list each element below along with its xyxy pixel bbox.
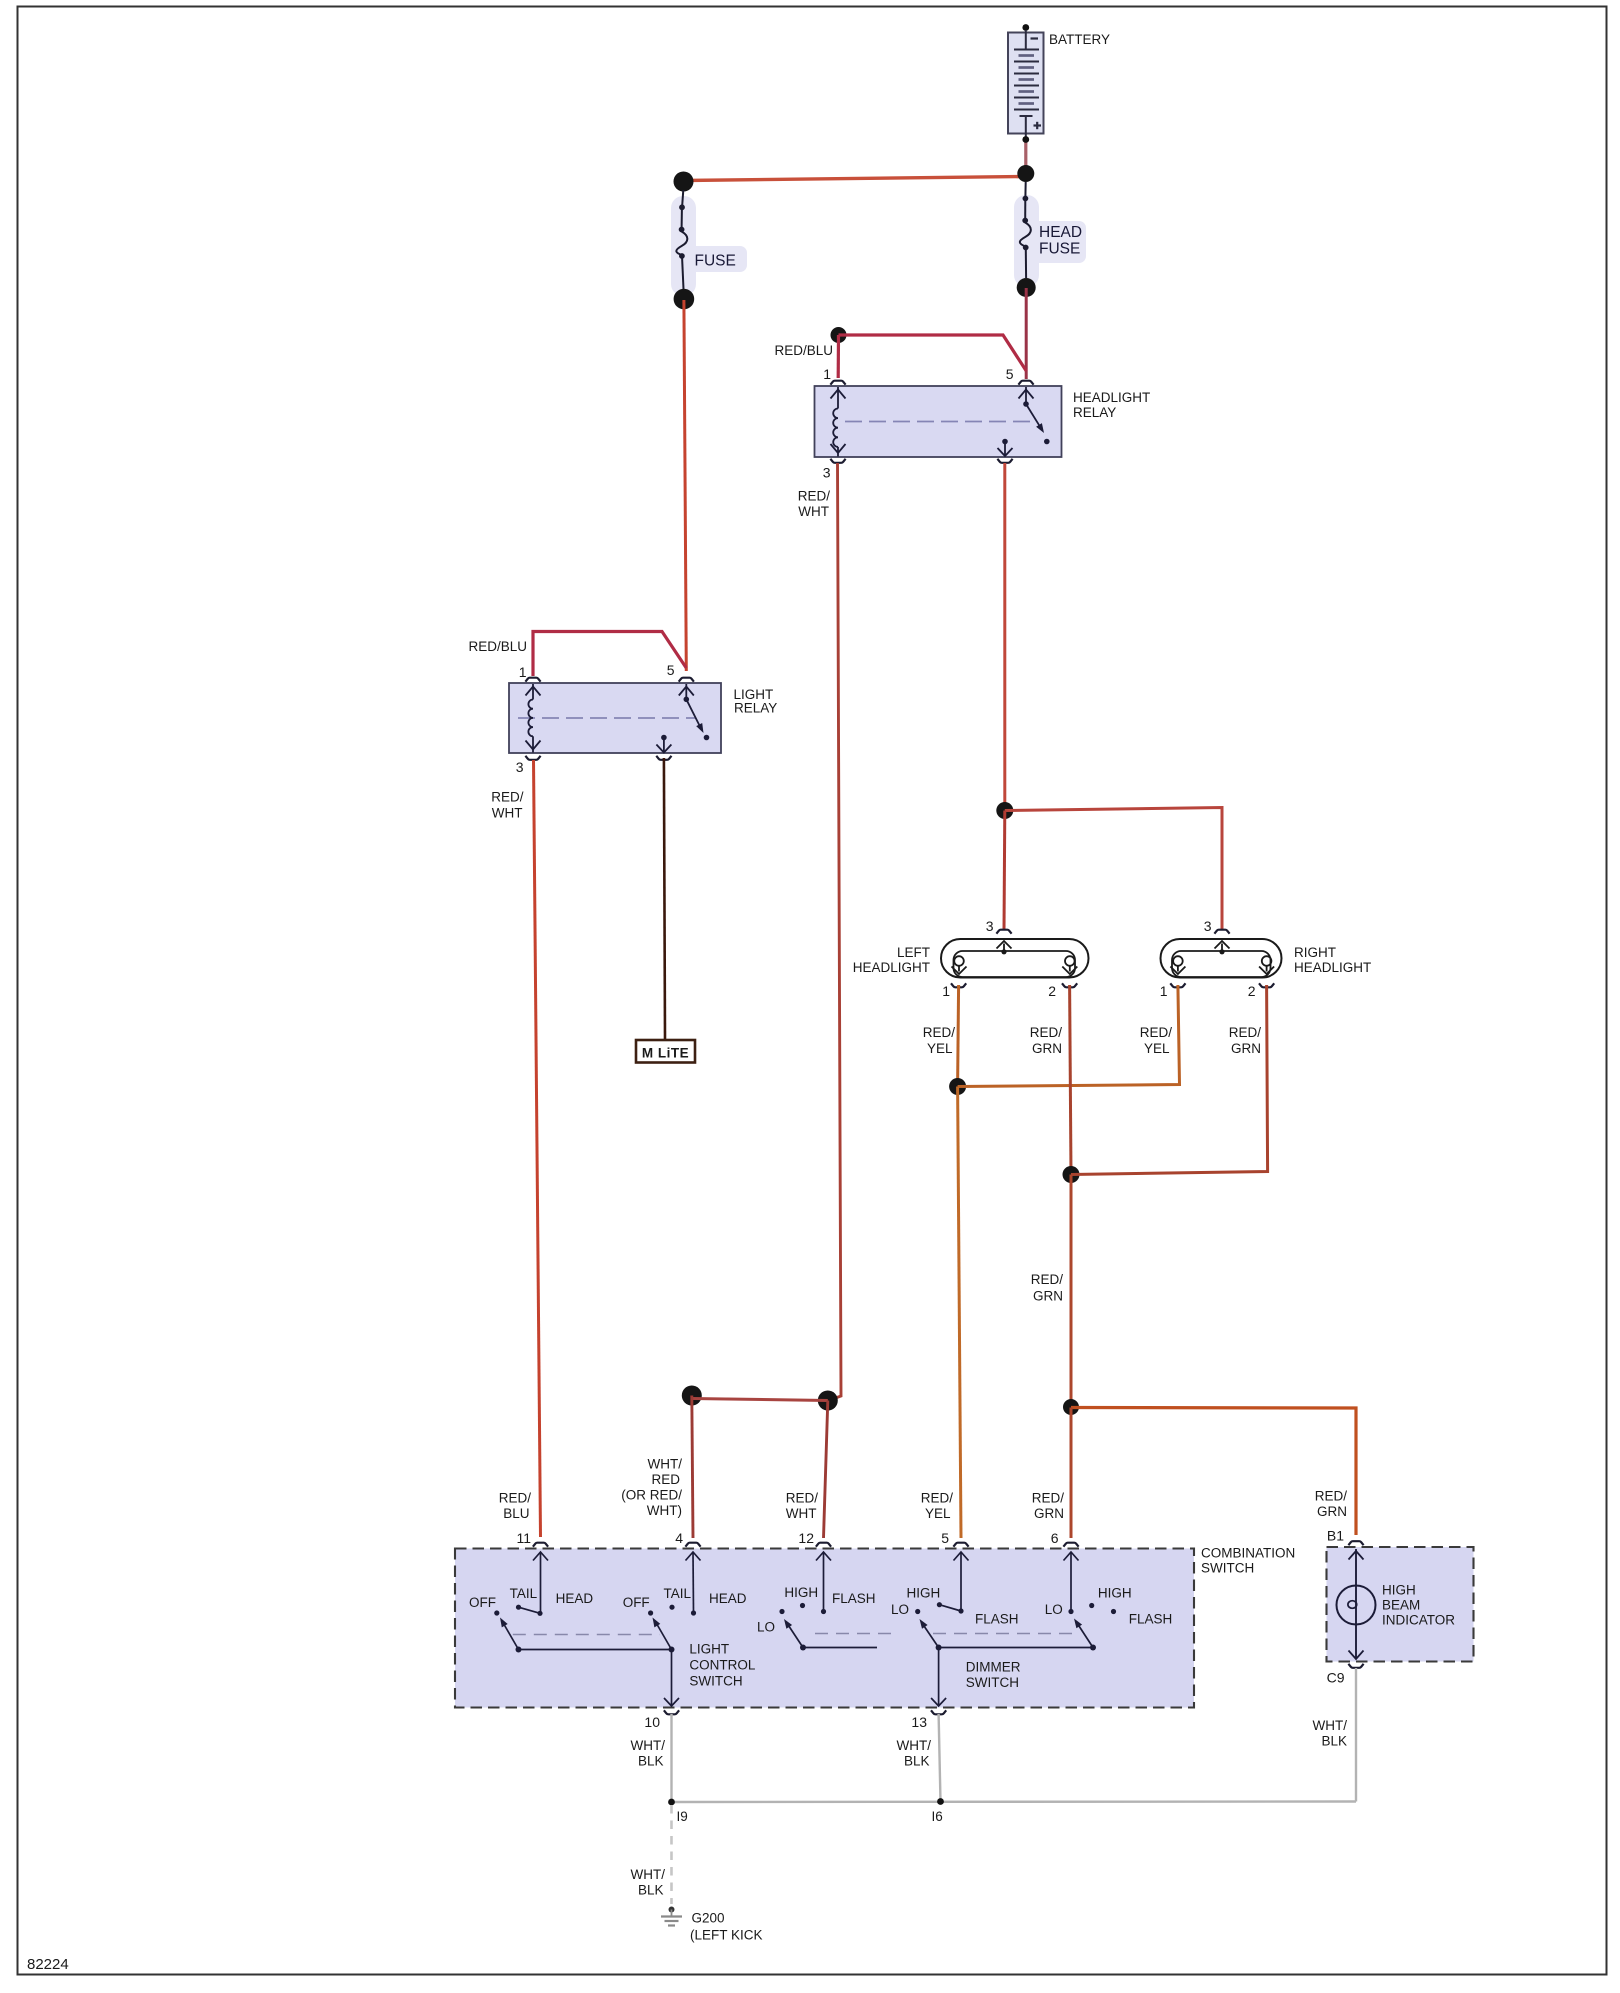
wire: headlight relay pin 3 down to pin4/pin12 junction xyxy=(830,463,841,1400)
relay K1 LIGHT RELAY xyxy=(509,662,777,775)
svg-text:WHT: WHT xyxy=(786,1506,817,1521)
coil (pin1-pin3) xyxy=(837,387,839,409)
svg-text:SWITCH: SWITCH xyxy=(689,1674,742,1689)
wire: fuse to light relay pin 5 xyxy=(684,300,686,671)
svg-text:B1: B1 xyxy=(1327,1528,1344,1544)
node: high-beam junction xyxy=(1063,1166,1080,1183)
wire: junction to high beam indicator B1 xyxy=(1071,1408,1356,1536)
wire: C9 to ground bus xyxy=(1355,1668,1357,1802)
wire: junction down to combination switch pin 6 xyxy=(1070,1408,1073,1539)
svg-text:COMBINATION: COMBINATION xyxy=(1201,1546,1295,1561)
node: head fuse bottom junction xyxy=(1017,278,1036,297)
wire: left headlight pin 1 down xyxy=(958,985,959,1086)
wire RED/BLU loop to light relay pin 5 xyxy=(533,632,686,677)
wire: pin 13 to ground bus xyxy=(939,1714,941,1802)
lamp LEFT HEADLIGHT xyxy=(853,918,1089,999)
svg-text:2: 2 xyxy=(1048,983,1056,999)
svg-text:WHT): WHT) xyxy=(647,1503,682,1518)
svg-text:HEAD: HEAD xyxy=(709,1591,747,1606)
wire RED/BLU to headlight relay pin 1 xyxy=(837,335,840,378)
svg-text:WHT/: WHT/ xyxy=(631,1738,666,1753)
svg-text:HIGH: HIGH xyxy=(907,1586,941,1601)
pin C9 connector xyxy=(1348,1664,1363,1668)
wire: junction down to combination switch pin 4 xyxy=(692,1396,693,1539)
wire: junction link pin4-pin12 xyxy=(692,1399,828,1401)
pin 13 leg xyxy=(938,1648,940,1707)
wire: head fuse to headlight relay pin 5 xyxy=(1025,288,1028,379)
svg-text:RED/: RED/ xyxy=(1229,1025,1262,1040)
node: RED/BLU wire end dot xyxy=(831,327,847,343)
dimmer wiper (flash-to-pass side) xyxy=(800,1645,806,1651)
svg-text:RIGHT: RIGHT xyxy=(1294,945,1336,960)
svg-text:3: 3 xyxy=(986,918,994,934)
light control switch: pin 11 leg xyxy=(540,1552,542,1613)
node: pin 12 junction xyxy=(818,1391,838,1411)
svg-text:FUSE: FUSE xyxy=(1039,241,1080,258)
svg-text:RED/: RED/ xyxy=(923,1025,956,1040)
node I9 xyxy=(668,1799,675,1806)
light control switch wiper 1 xyxy=(516,1647,522,1653)
wire: junction to right headlight pin 3 xyxy=(1005,808,1222,931)
pin 11 connector xyxy=(533,1543,548,1547)
svg-text:(OR RED/: (OR RED/ xyxy=(621,1488,682,1503)
svg-text:TAIL: TAIL xyxy=(664,1586,692,1601)
svg-text:HEAD: HEAD xyxy=(556,1591,594,1606)
wire: left headlight pin 2 down xyxy=(1070,985,1071,1174)
svg-text:RED/: RED/ xyxy=(786,1491,819,1506)
svg-text:BLU: BLU xyxy=(503,1506,529,1521)
svg-text:6: 6 xyxy=(1051,1530,1059,1546)
svg-text:RED/: RED/ xyxy=(1140,1025,1173,1040)
svg-text:SWITCH: SWITCH xyxy=(1201,1561,1254,1576)
svg-text:RED/: RED/ xyxy=(1031,1272,1064,1287)
svg-text:HEAD: HEAD xyxy=(1039,224,1082,241)
svg-text:BATTERY: BATTERY xyxy=(1049,32,1110,47)
svg-text:BLK: BLK xyxy=(904,1754,930,1769)
wire: light relay pin 3 down to combination switch pin 11 xyxy=(534,760,541,1537)
ground G200 xyxy=(661,1907,763,1943)
M LITE module xyxy=(636,1040,695,1063)
light control switch wiper 2 xyxy=(669,1647,675,1653)
svg-text:RED/: RED/ xyxy=(1032,1491,1065,1506)
svg-text:M LiTE: M LiTE xyxy=(642,1046,689,1061)
wire: junction down to combination switch pin 12 xyxy=(824,1401,828,1539)
pin 6 connector xyxy=(1063,1543,1078,1547)
svg-text:LO: LO xyxy=(757,1620,775,1635)
svg-text:GRN: GRN xyxy=(1032,1041,1062,1056)
svg-text:C9: C9 xyxy=(1327,1670,1345,1686)
dashed gang line 1 xyxy=(513,1634,660,1636)
svg-text:12: 12 xyxy=(798,1530,814,1546)
svg-text:BLK: BLK xyxy=(638,1754,664,1769)
svg-text:5: 5 xyxy=(667,662,675,678)
svg-text:FLASH: FLASH xyxy=(1129,1612,1173,1627)
dimmer wiper 3 xyxy=(1090,1645,1096,1651)
switch S1 COMBINATION SWITCH xyxy=(455,1530,1295,1730)
svg-text:OFF: OFF xyxy=(469,1595,496,1610)
svg-text:2: 2 xyxy=(1248,983,1256,999)
battery xyxy=(1008,24,1110,143)
svg-text:1: 1 xyxy=(823,366,831,382)
svg-text:INDICATOR: INDICATOR xyxy=(1382,1613,1455,1628)
wire: headlight relay pin 2 down to headlight junction xyxy=(1003,463,1006,810)
svg-text:RED/BLU: RED/BLU xyxy=(774,343,833,358)
svg-text:WHT: WHT xyxy=(492,806,523,821)
pin 13 connector xyxy=(931,1710,946,1714)
wire: junction to left headlight pin 3 xyxy=(1003,811,1007,931)
wire: low-beam junction to right headlight pin 1 xyxy=(958,985,1180,1087)
fuse FUSE (left) xyxy=(671,190,747,296)
svg-text:I9: I9 xyxy=(677,1809,688,1824)
svg-text:3: 3 xyxy=(823,465,831,481)
svg-text:3: 3 xyxy=(1204,918,1212,934)
svg-text:GRN: GRN xyxy=(1034,1506,1064,1521)
svg-text:I6: I6 xyxy=(932,1809,943,1824)
svg-text:FLASH: FLASH xyxy=(832,1591,876,1606)
svg-text:YEL: YEL xyxy=(1144,1041,1170,1056)
node: high-beam indicator junction xyxy=(1063,1399,1079,1415)
svg-text:BLK: BLK xyxy=(638,1883,664,1898)
pin 12 connector xyxy=(816,1543,831,1547)
dimmer: pin 6 leg xyxy=(1070,1552,1072,1612)
dimmer: pin 12 leg xyxy=(823,1552,825,1612)
dimmer wiper (main) xyxy=(936,1645,942,1651)
relay U1 HEADLIGHT RELAY xyxy=(815,366,1151,481)
svg-text:1: 1 xyxy=(1160,983,1168,999)
pin 10 connector xyxy=(664,1710,679,1714)
svg-text:GRN: GRN xyxy=(1033,1289,1063,1304)
svg-text:HIGH: HIGH xyxy=(1098,1586,1132,1601)
svg-text:RED: RED xyxy=(651,1472,680,1487)
switch contact (pin5) xyxy=(685,684,687,698)
svg-text:3: 3 xyxy=(516,759,524,775)
svg-text:LIGHT: LIGHT xyxy=(689,1642,729,1657)
battery B+ feed wire (battery to junction) xyxy=(1024,140,1027,174)
lamp RIGHT HEADLIGHT xyxy=(1160,918,1372,999)
svg-text:11: 11 xyxy=(516,1530,531,1546)
svg-text:1: 1 xyxy=(942,983,950,999)
svg-text:GRN: GRN xyxy=(1231,1041,1261,1056)
svg-text:SWITCH: SWITCH xyxy=(966,1675,1019,1690)
svg-text:YEL: YEL xyxy=(927,1041,953,1056)
svg-text:5: 5 xyxy=(941,1530,949,1546)
pin 2 stem xyxy=(661,735,667,741)
pin connector arcs xyxy=(830,381,845,385)
svg-text:RED/: RED/ xyxy=(921,1491,954,1506)
node I6 xyxy=(937,1798,944,1805)
svg-text:LEFT: LEFT xyxy=(897,945,930,960)
switch contact (pin5) xyxy=(1025,387,1027,403)
dimmer: pin 5 leg xyxy=(960,1552,962,1611)
svg-text:HEADLIGHT: HEADLIGHT xyxy=(1073,390,1150,405)
pin 2 stem xyxy=(1002,439,1008,445)
svg-text:RELAY: RELAY xyxy=(734,701,777,716)
svg-text:WHT/: WHT/ xyxy=(648,1457,683,1472)
svg-text:BLK: BLK xyxy=(1321,1734,1347,1749)
svg-text:1: 1 xyxy=(519,664,527,680)
svg-text:10: 10 xyxy=(644,1714,660,1730)
svg-text:4: 4 xyxy=(675,1530,683,1546)
svg-text:HEADLIGHT: HEADLIGHT xyxy=(853,960,930,975)
node: battery junction xyxy=(1017,165,1034,182)
svg-text:82224: 82224 xyxy=(27,1956,69,1973)
wire: main feed horizontal from battery junction to fuse xyxy=(684,177,1026,181)
svg-text:BEAM: BEAM xyxy=(1382,1598,1420,1613)
svg-text:G200: G200 xyxy=(692,1911,725,1926)
svg-text:5: 5 xyxy=(1006,366,1014,382)
svg-text:DIMMER: DIMMER xyxy=(966,1660,1021,1675)
node: headlight feed junction xyxy=(996,802,1013,819)
svg-text:RED/: RED/ xyxy=(1030,1025,1063,1040)
node: low-beam junction xyxy=(949,1078,966,1095)
svg-text:HEADLIGHT: HEADLIGHT xyxy=(1294,960,1371,975)
wire RED/BLU loop to headlight relay pin 5 xyxy=(839,335,1027,371)
svg-text:LO: LO xyxy=(1045,1602,1063,1617)
svg-text:GRN: GRN xyxy=(1317,1504,1347,1519)
pin 10 leg xyxy=(671,1650,673,1707)
svg-text:HIGH: HIGH xyxy=(784,1585,818,1600)
svg-text:RED/: RED/ xyxy=(491,790,524,805)
wire: light relay pin 2 down to M LITE xyxy=(664,758,665,1039)
wire: ground bus horizontal xyxy=(672,1800,1357,1803)
svg-text:TAIL: TAIL xyxy=(510,1586,538,1601)
svg-text:RELAY: RELAY xyxy=(1073,405,1116,420)
svg-text:CONTROL: CONTROL xyxy=(689,1658,755,1673)
node: pin 4 junction xyxy=(682,1386,702,1406)
svg-text:OFF: OFF xyxy=(623,1595,650,1610)
svg-text:RED/: RED/ xyxy=(798,489,831,504)
pin 5 connector xyxy=(953,1543,968,1547)
wire: high-beam junction down xyxy=(1070,1175,1073,1408)
svg-text:LO: LO xyxy=(891,1602,909,1617)
svg-text:YEL: YEL xyxy=(925,1506,951,1521)
svg-text:WHT/: WHT/ xyxy=(631,1867,666,1882)
fuse HEAD FUSE xyxy=(1014,182,1086,287)
svg-text:WHT/: WHT/ xyxy=(1313,1718,1348,1733)
pin B1 connector xyxy=(1348,1541,1363,1545)
node: fuse top junction xyxy=(674,172,694,192)
svg-text:HIGH: HIGH xyxy=(1382,1583,1416,1598)
svg-text:RED/: RED/ xyxy=(499,1491,532,1506)
lamp HIGH BEAM INDICATOR xyxy=(1327,1528,1474,1686)
wire: I9 to ground G200 (dashed) xyxy=(670,1805,673,1904)
svg-text:FUSE: FUSE xyxy=(695,253,736,270)
wire: low-beam junction down to combination switch pin 5 xyxy=(958,1087,961,1539)
light control switch: pin 4 leg xyxy=(692,1552,695,1613)
node: fuse bottom junction xyxy=(674,289,695,310)
pin 4 connector xyxy=(685,1543,700,1547)
wire: pin 10 to ground bus xyxy=(670,1714,672,1802)
svg-text:RED/: RED/ xyxy=(1315,1489,1348,1504)
svg-text:WHT/: WHT/ xyxy=(897,1738,932,1753)
pin connector arcs xyxy=(525,678,540,682)
svg-text:RED/BLU: RED/BLU xyxy=(468,639,527,654)
svg-text:13: 13 xyxy=(911,1714,927,1730)
wire: high-beam junction to right headlight pin 2 xyxy=(1071,985,1268,1175)
svg-text:(LEFT KICK: (LEFT KICK xyxy=(690,1928,763,1943)
svg-text:FLASH: FLASH xyxy=(975,1612,1019,1627)
coil (pin1-pin3) xyxy=(532,684,534,700)
svg-text:WHT: WHT xyxy=(798,504,829,519)
